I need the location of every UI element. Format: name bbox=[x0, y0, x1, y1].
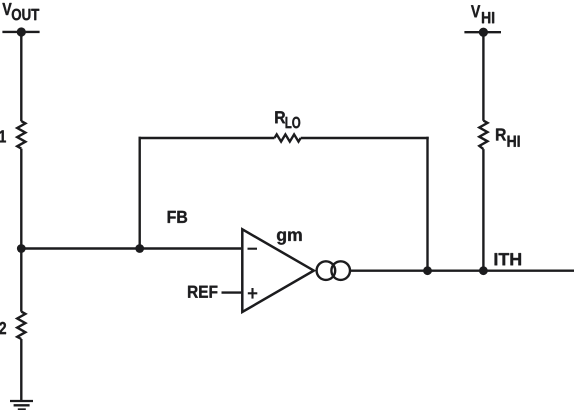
wire loop top left bbox=[139, 137, 275, 139]
node junction loop-ITH bbox=[423, 266, 432, 275]
node VHI terminal bar bbox=[464, 31, 501, 33]
resistor R1 bbox=[17, 121, 25, 149]
resistor RLO bbox=[275, 134, 301, 141]
node VHI terminal dot bbox=[479, 28, 488, 37]
op-amp gm triangle bbox=[242, 229, 313, 312]
node junction RHI-ITH bbox=[479, 266, 488, 275]
wire R1 to FB node bbox=[20, 149, 22, 249]
resistor R2 bbox=[17, 312, 25, 339]
wire VHI rail upper bbox=[482, 32, 484, 121]
label gm bbox=[277, 231, 302, 244]
wire loop right vertical bbox=[426, 137, 428, 271]
resistor RHI bbox=[479, 121, 487, 150]
node VOUT terminal bar bbox=[2, 31, 39, 33]
label FB bbox=[168, 211, 187, 223]
wire main FB horizontal bbox=[21, 247, 241, 249]
label ITH bbox=[495, 253, 521, 265]
label VHI bbox=[471, 5, 494, 23]
op-amp minus sign bbox=[248, 248, 258, 250]
op-amp plus sign bbox=[248, 288, 257, 299]
wire REF to plus input bbox=[222, 291, 242, 293]
label VOUT bbox=[2, 3, 39, 20]
label RLO bbox=[275, 111, 300, 128]
wire RHI to ITH bbox=[482, 149, 484, 271]
wire loop top right bbox=[301, 137, 429, 139]
wire FB vertical to loop bbox=[138, 137, 140, 249]
node VOUT terminal dot bbox=[17, 27, 26, 36]
label R1 bbox=[0, 130, 6, 142]
ground bbox=[10, 401, 33, 410]
label R2 bbox=[0, 322, 6, 334]
wire R2 to ground bbox=[20, 339, 22, 400]
wire ITH output bbox=[350, 270, 574, 272]
current source circle 2 bbox=[331, 261, 350, 280]
label RHI bbox=[496, 129, 520, 147]
node junction FB bbox=[135, 244, 144, 253]
label REF bbox=[188, 286, 217, 298]
wire VOUT rail upper bbox=[20, 32, 22, 121]
node junction left rail bbox=[17, 244, 26, 253]
wire R2 top bbox=[20, 249, 22, 312]
current source circle 1 bbox=[317, 261, 336, 280]
